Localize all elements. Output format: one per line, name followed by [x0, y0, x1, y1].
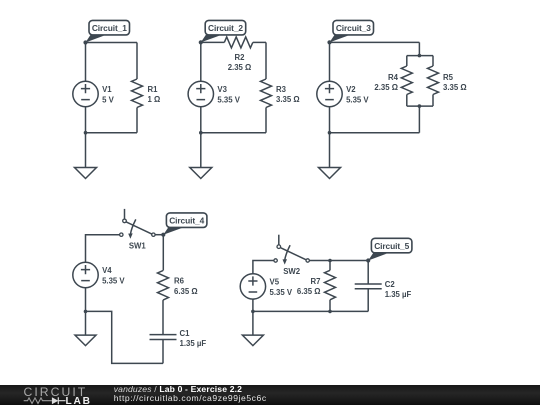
wire right top stub c3: [418, 42, 420, 55]
node Circuit_1 flag box: [89, 20, 130, 35]
svg-text:6.35 Ω: 6.35 Ω: [297, 287, 321, 296]
resistor R7: [325, 270, 336, 300]
node Circuit_4 flag box: [166, 213, 207, 228]
svg-text:R6: R6: [174, 277, 185, 286]
junction c3 parallel bottom: [418, 104, 422, 108]
svg-text:5 V: 5 V: [102, 95, 115, 104]
svg-text:1 Ω: 1 Ω: [148, 95, 161, 104]
junction c5 bottom left: [251, 310, 255, 314]
CircuitLab logo diode: [52, 397, 66, 404]
wire right lower c3: [418, 106, 420, 133]
svg-text:Circuit_2: Circuit_2: [208, 23, 243, 33]
wire R4 bottom stub: [406, 95, 408, 107]
svg-text:6.35 Ω: 6.35 Ω: [174, 287, 198, 296]
svg-text:R2: R2: [235, 53, 246, 62]
resistor R5: [428, 66, 439, 95]
wire right lower c1: [136, 108, 138, 133]
svg-text:5.35 V: 5.35 V: [346, 95, 369, 104]
wire top c1: [86, 42, 138, 44]
svg-text:2.35 Ω: 2.35 Ω: [228, 63, 252, 72]
wire top right c2: [253, 41, 266, 43]
resistor R3: [261, 79, 272, 108]
ground c3: [319, 168, 341, 179]
voltage source V5: [240, 274, 265, 299]
switch SW2: [274, 235, 310, 265]
svg-text:V3: V3: [217, 85, 227, 94]
ground c4: [75, 335, 96, 346]
svg-text:5.35 V: 5.35 V: [270, 288, 293, 297]
wire R7 top stub c5: [329, 261, 331, 271]
CircuitLab logo resistor zigzag: [24, 398, 52, 404]
wire ground stub c4: [85, 311, 87, 335]
node Circuit_1 pointer wedge: [86, 35, 105, 43]
wire left lower c3: [329, 107, 331, 133]
voltage source V2: [317, 81, 342, 106]
node Circuit_3 dot: [327, 40, 331, 44]
ground c1: [75, 168, 97, 179]
wire R4 top stub: [406, 56, 408, 66]
wire left upper c1: [85, 43, 87, 82]
svg-text:R5: R5: [443, 73, 454, 82]
wire V4 up c4: [86, 235, 120, 263]
ground c5: [242, 335, 263, 346]
junction R7 bottom c5: [328, 310, 332, 314]
svg-text:LAB: LAB: [66, 396, 92, 405]
wire V5 down c5: [252, 299, 254, 311]
node Circuit_4 dot: [161, 233, 165, 237]
svg-text:3.35 Ω: 3.35 Ω: [443, 83, 467, 92]
wire R5 top stub: [432, 56, 434, 66]
svg-text:R3: R3: [276, 85, 287, 94]
svg-text:SW2: SW2: [283, 267, 301, 276]
wire top c3: [330, 41, 420, 43]
ground c2: [190, 168, 212, 179]
wire C1 down c4: [162, 340, 164, 364]
node Circuit_2 pointer wedge: [201, 35, 220, 43]
wire bottom c2: [201, 132, 266, 134]
svg-text:SW1: SW1: [129, 241, 147, 250]
node Circuit_5 pointer wedge: [368, 253, 387, 261]
node Circuit_2 flag box: [205, 20, 246, 35]
wire top left c2: [201, 41, 225, 43]
wire parallel top bar c3: [407, 55, 433, 57]
capacitor C2: [355, 284, 382, 289]
svg-text:Circuit_1: Circuit_1: [92, 23, 127, 33]
svg-text:http://circuitlab.com/ca9ze99j: http://circuitlab.com/ca9ze99je5c6c: [114, 393, 267, 403]
node Circuit_3 pointer wedge: [330, 35, 349, 43]
svg-text:V5: V5: [270, 278, 280, 287]
node Circuit_5 dot: [366, 258, 370, 262]
capacitor C1: [150, 335, 177, 340]
wire bottom c1: [86, 132, 138, 134]
resistor R6: [158, 271, 169, 301]
wire right upper c1: [136, 43, 138, 80]
svg-text:V4: V4: [102, 266, 112, 275]
voltage source V4: [73, 262, 98, 287]
junction c1 bottom: [84, 131, 88, 135]
svg-text:5.35 V: 5.35 V: [102, 276, 125, 285]
junction c4 bottom: [84, 310, 88, 314]
junction c3 top: [418, 54, 422, 58]
node Circuit_4 pointer wedge: [163, 227, 182, 234]
wire parallel bottom bar c3: [407, 105, 433, 107]
wire bottom c3: [330, 132, 420, 134]
node Circuit_2 dot: [199, 40, 203, 44]
resistor R4: [401, 66, 412, 95]
svg-text:R4: R4: [388, 73, 399, 82]
node Circuit_5 flag box: [371, 238, 412, 253]
svg-text:3.35 Ω: 3.35 Ω: [276, 95, 300, 104]
junction c3 bottom: [328, 131, 332, 135]
wire left upper c2: [200, 42, 202, 81]
junction c2 bottom: [199, 131, 203, 135]
wire R7 bottom stub c5: [329, 300, 331, 312]
junction R7 top c5: [328, 259, 332, 263]
resistor R2: [224, 37, 253, 48]
wire node to C2 c5: [367, 261, 369, 285]
svg-text:1.35 µF: 1.35 µF: [180, 339, 207, 348]
wire V4 down c4: [85, 288, 87, 312]
resistor R1: [132, 79, 143, 108]
wire ground stub c3: [329, 133, 331, 168]
wire ground stub c2: [200, 133, 202, 168]
node Circuit_3 flag box: [333, 20, 374, 35]
wire R6 to C1 c4: [162, 300, 164, 335]
svg-text:R7: R7: [311, 277, 321, 286]
wire left lower c1: [85, 107, 87, 133]
wire bottom return c4: [86, 311, 164, 363]
voltage source V3: [188, 81, 213, 106]
wire bottom c5: [253, 310, 368, 312]
wire right lower c2: [265, 108, 267, 133]
svg-text:C2: C2: [385, 280, 396, 289]
wire C2 down c5: [367, 289, 369, 312]
wire right upper c2: [265, 42, 267, 79]
wire switch to node c4: [155, 234, 163, 236]
svg-text:Circuit_4: Circuit_4: [169, 216, 204, 226]
wire ground stub c1: [85, 133, 87, 168]
svg-text:V2: V2: [346, 85, 356, 94]
svg-text:Circuit_5: Circuit_5: [374, 241, 409, 251]
voltage source V1: [73, 81, 98, 106]
switch SW1: [120, 209, 155, 239]
svg-text:5.35 V: 5.35 V: [217, 95, 240, 104]
wire left lower c2: [200, 107, 202, 133]
wire node to R6 c4: [162, 235, 164, 271]
wire left upper c3: [329, 42, 331, 81]
svg-text:Circuit_3: Circuit_3: [336, 23, 371, 33]
wire switch to C2 node c5: [309, 260, 368, 262]
svg-text:C1: C1: [180, 329, 191, 338]
wire V5 up c5: [253, 261, 274, 274]
wire R5 bottom stub: [432, 95, 434, 107]
svg-text:2.35 Ω: 2.35 Ω: [374, 83, 398, 92]
svg-text:V1: V1: [102, 85, 112, 94]
svg-text:R1: R1: [148, 85, 159, 94]
svg-text:1.35 µF: 1.35 µF: [385, 290, 412, 299]
node Circuit_1 dot: [83, 40, 87, 44]
wire ground stub c5: [252, 311, 254, 335]
